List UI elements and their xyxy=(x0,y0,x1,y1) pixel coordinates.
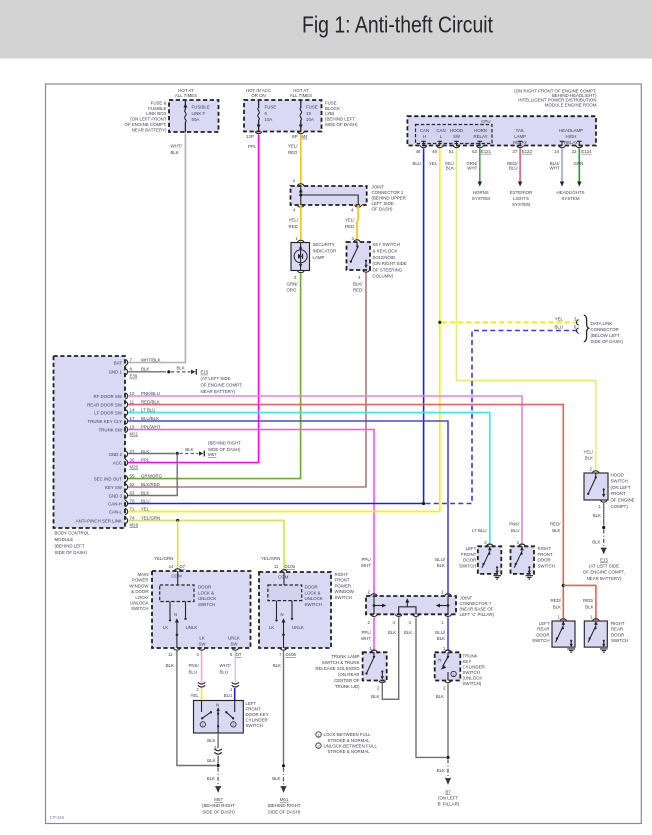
svg-text:WINDOW: WINDOW xyxy=(335,589,355,594)
label: BODY CONTROL MODULE xyxy=(55,531,91,556)
RR pin 1 xyxy=(590,614,599,621)
svg-text:RELEASE SOLENOID: RELEASE SOLENOID xyxy=(315,666,359,671)
svg-text:SEC IND OUT: SEC IND OUT xyxy=(94,476,123,481)
svg-text:YEL/: YEL/ xyxy=(583,449,593,454)
wire PNK/BLU pin 10 to right front door switch xyxy=(128,396,522,545)
svg-text:HEADLIGHTS: HEADLIGHTS xyxy=(556,190,584,195)
svg-text:CENTER OF: CENTER OF xyxy=(334,678,360,683)
svg-text:WHT: WHT xyxy=(361,563,371,568)
svg-text:FRONT: FRONT xyxy=(246,707,261,712)
svg-text:FRONT: FRONT xyxy=(335,578,350,583)
wire LT BLU pin 14 to left front door switch xyxy=(128,413,490,546)
svg-text:YEL: YEL xyxy=(190,693,199,698)
svg-text:63: 63 xyxy=(130,490,135,495)
right switch top pin 11 D105 xyxy=(274,564,296,580)
svg-text:HEADLAMP: HEADLAMP xyxy=(559,128,583,133)
svg-text:TRUNK LID): TRUNK LID) xyxy=(335,684,360,689)
svg-text:BLK: BLK xyxy=(585,456,593,461)
svg-text:FUSE &: FUSE & xyxy=(151,100,167,105)
hood switch pin 1 xyxy=(599,500,607,509)
svg-text:FUSIBLE: FUSIBLE xyxy=(192,105,210,110)
svg-text:GND 2: GND 2 xyxy=(109,452,123,457)
svg-text:FRONT: FRONT xyxy=(461,552,476,557)
wire BLU pin 70 (CAN-H) xyxy=(128,502,425,505)
right front power window switch (dashed box) xyxy=(259,572,331,648)
svg-text:M57: M57 xyxy=(214,797,223,802)
label: fuse box location (left) xyxy=(125,100,167,132)
svg-text:(BEHIND RIGHT: (BEHIND RIGHT xyxy=(202,803,235,808)
svg-text:SWITCH): SWITCH) xyxy=(463,681,482,686)
svg-text:YEL/GRN: YEL/GRN xyxy=(154,556,173,561)
svg-text:RELAY: RELAY xyxy=(564,140,578,145)
svg-text:H: H xyxy=(423,134,426,139)
fuse 6 symbol xyxy=(255,100,261,134)
fuse 19 symbol xyxy=(298,100,304,134)
svg-text:BLU/: BLU/ xyxy=(435,557,446,562)
label: JOINT CONNECTOR 7 xyxy=(460,595,495,617)
label BLU xyxy=(412,161,421,166)
svg-text:E15: E15 xyxy=(201,370,209,375)
svg-text:UNLK: UNLK xyxy=(186,625,198,630)
svg-text:UNLOCK: UNLOCK xyxy=(198,596,216,601)
svg-text:BLU: BLU xyxy=(412,161,421,166)
label M57 ground xyxy=(202,797,235,814)
svg-text:SWITCH: SWITCH xyxy=(335,595,352,600)
label CAN L xyxy=(436,128,445,139)
svg-text:BLK: BLK xyxy=(141,490,149,495)
RR ground xyxy=(600,649,608,652)
svg-text:DOOR: DOOR xyxy=(198,585,211,590)
svg-text:LEFT: LEFT xyxy=(539,621,550,626)
svg-text:14: 14 xyxy=(130,407,135,412)
wire YEL into key cylinder switch xyxy=(201,688,203,701)
label BLK (main pin 11) xyxy=(166,663,174,668)
svg-text:BLK: BLK xyxy=(437,563,445,568)
LF door switch blade xyxy=(482,546,499,574)
svg-text:OF ENGINE COMPT,: OF ENGINE COMPT, xyxy=(201,383,243,388)
svg-text:Fig 1: Anti-theft Circuit: Fig 1: Anti-theft Circuit xyxy=(302,12,493,38)
svg-text:CAN-L: CAN-L xyxy=(109,509,123,514)
svg-text:BLK: BLK xyxy=(141,367,149,372)
label: JOINT CONNECTOR 1 text xyxy=(372,185,406,212)
label GRN/WHT xyxy=(466,161,478,171)
pin arcs on IPDM bottom edge xyxy=(420,146,582,148)
svg-text:FUSE: FUSE xyxy=(306,105,318,110)
label HEADLAMP HIGH RELAY xyxy=(559,128,583,145)
svg-text:70: 70 xyxy=(130,498,135,503)
label: HOT AT ALL TIMES (right) xyxy=(290,88,312,98)
svg-text:LEFT: LEFT xyxy=(246,701,257,706)
svg-text:N: N xyxy=(438,657,441,662)
svg-text:FUSE: FUSE xyxy=(265,105,277,110)
inline connector on key cylinder BLK xyxy=(214,749,221,754)
svg-text:11: 11 xyxy=(274,564,279,569)
wire YEL dashed to data link connector xyxy=(442,321,578,323)
svg-text:SECURITY: SECURITY xyxy=(313,242,335,247)
svg-text:RIGHT: RIGHT xyxy=(538,546,552,551)
svg-text:LIGHTS: LIGHTS xyxy=(513,196,529,201)
wire YEL/RED from JC1 to security indicator lamp xyxy=(300,205,302,240)
svg-text:(ON REAR: (ON REAR xyxy=(338,672,359,677)
svg-text:PNK/: PNK/ xyxy=(509,522,520,527)
trunk key pin 2 and BLK wire to B7 xyxy=(436,681,452,786)
wire BLK JC7 pin4a down to trunk lamp loop xyxy=(384,617,399,699)
svg-text:BLK: BLK xyxy=(436,694,444,699)
wire YEL/RED from fuse 19 to joint connector 1 xyxy=(300,135,302,185)
svg-text:GND 3: GND 3 xyxy=(109,493,123,498)
svg-text:(UNLOCK: (UNLOCK xyxy=(463,675,483,680)
svg-text:E124: E124 xyxy=(581,149,592,154)
svg-text:RED/: RED/ xyxy=(550,522,561,527)
svg-text:1: 1 xyxy=(317,733,319,737)
title bar xyxy=(0,0,652,59)
svg-text:(ON RIGHT SIDE: (ON RIGHT SIDE xyxy=(373,261,407,266)
svg-text:UNLOCK: UNLOCK xyxy=(305,596,323,601)
svg-text:BLK: BLK xyxy=(171,150,179,155)
data link connector pin arcs xyxy=(577,320,579,333)
svg-text:LF DOOR SW: LF DOOR SW xyxy=(94,410,123,415)
svg-text:OF STEERING: OF STEERING xyxy=(373,267,403,272)
diagram id 17F465 xyxy=(50,815,65,820)
wire PPL/WHT JC7 to trunk lamp switch xyxy=(373,617,375,651)
joint connector 7 (dashed box) xyxy=(366,596,456,614)
svg-text:LK: LK xyxy=(199,636,204,641)
label YEL/RED (right) xyxy=(345,218,355,229)
svg-text:BLK: BLK xyxy=(388,630,396,635)
wire BLK from key cylinder pin 3 xyxy=(207,733,218,751)
svg-text:SIDE OF DASH): SIDE OF DASH) xyxy=(202,809,235,814)
svg-text:D106: D106 xyxy=(286,652,297,657)
label: FUSE 6 10A xyxy=(265,105,277,123)
svg-text:BLK: BLK xyxy=(593,513,601,518)
label: LEFT FRONT DOOR KEY CYLINDER SWITCH xyxy=(246,701,269,728)
svg-text:ANTI-PINCH SER LINK: ANTI-PINCH SER LINK xyxy=(76,518,122,523)
svg-text:17: 17 xyxy=(130,416,135,421)
svg-text:LEFT: LEFT xyxy=(466,546,477,551)
data link connector brace xyxy=(584,315,589,342)
pin 12P label xyxy=(246,134,254,139)
label E15 below hood switch xyxy=(583,557,625,581)
svg-text:E15: E15 xyxy=(600,557,608,562)
wire GRN/WHT horn relay output with arrow xyxy=(478,149,482,187)
svg-text:BLU: BLU xyxy=(224,693,233,698)
trunk lamp switch blade + solenoid arrow xyxy=(365,652,384,679)
wire WHT/BLU from UNLK SW pin 5 xyxy=(234,651,236,683)
svg-text:BLK: BLK xyxy=(592,539,600,544)
main switch bottom pins 11 4 5 D7 xyxy=(168,648,242,657)
body control module (dashed box) xyxy=(54,356,126,528)
wire BLK pin 63 joined to GND2 junction xyxy=(128,454,177,496)
svg-text:HOOD: HOOD xyxy=(450,128,463,133)
svg-text:RF DOOR SW: RF DOOR SW xyxy=(93,394,122,399)
labels PPL/WHT + BLU/BLK above JC7 xyxy=(361,557,446,568)
svg-text:2: 2 xyxy=(232,723,234,727)
wire BLU/BLK JC7 to trunk key cylinder xyxy=(447,617,449,651)
svg-text:PPL: PPL xyxy=(248,144,257,149)
key switch & keylock solenoid (dashed box) xyxy=(347,242,371,270)
svg-text:BLU: BLU xyxy=(509,166,518,171)
svg-text:FUSIBLE: FUSIBLE xyxy=(148,106,166,111)
svg-text:REAR DOOR SW: REAR DOOR SW xyxy=(87,402,123,407)
CPU pin stubs (T-bars) xyxy=(421,141,581,145)
RF door switch pin 2 xyxy=(517,540,526,546)
svg-text:STROKE & NORMAL: STROKE & NORMAL xyxy=(328,749,371,754)
svg-text:E121: E121 xyxy=(481,149,492,154)
legend: lock/unlock stroke notes xyxy=(316,732,378,754)
pin numbers row: 48 49 51 53 E121 37 E122 24 22 E124 xyxy=(416,149,593,154)
svg-text:BLU: BLU xyxy=(220,670,229,675)
svg-text:PPL/: PPL/ xyxy=(361,630,371,635)
wire BLU into key cylinder switch xyxy=(234,688,236,701)
main switch top pin 14 D7 xyxy=(169,564,186,579)
labels 2 YEL / 1 BLU xyxy=(190,687,232,698)
svg-text:M19: M19 xyxy=(130,522,139,527)
svg-text:RIGHT: RIGHT xyxy=(611,621,625,626)
svg-text:DATA LINK: DATA LINK xyxy=(591,321,613,326)
svg-text:BLK: BLK xyxy=(166,663,174,668)
svg-text:11: 11 xyxy=(130,399,135,404)
svg-text:49: 49 xyxy=(432,149,437,154)
label: LEFT FRONT DOOR SWITCH xyxy=(459,546,477,568)
wire YEL/RED from JC1 to key switch xyxy=(357,205,358,240)
svg-text:TRUNK SW: TRUNK SW xyxy=(99,427,123,432)
JC7 top pin labels and arcs xyxy=(368,590,452,596)
svg-text:HORNS: HORNS xyxy=(473,190,489,195)
svg-text:PNK/BLU: PNK/BLU xyxy=(141,391,160,396)
svg-text:BAT: BAT xyxy=(114,360,123,365)
svg-text:YEL/: YEL/ xyxy=(289,218,299,223)
BCM pin bumps xyxy=(125,360,128,524)
svg-text:PNK/: PNK/ xyxy=(189,663,200,668)
svg-text:RELAY: RELAY xyxy=(473,134,487,139)
svg-text:PPL/: PPL/ xyxy=(361,557,371,562)
svg-text:10A: 10A xyxy=(306,117,314,122)
label: RIGHT FRONT POWER WINDOW SWITCH xyxy=(335,572,355,600)
labels RED/BLK at rear door switches xyxy=(551,598,595,609)
label YEL/RED (left) xyxy=(289,218,299,229)
svg-text:GND 1: GND 1 xyxy=(109,370,123,375)
pin 1 label and arc xyxy=(295,236,304,243)
svg-text:LEFT 'C' PILLAR): LEFT 'C' PILLAR) xyxy=(460,612,495,617)
label YEL/GRN (right) xyxy=(261,556,280,561)
label: SECURITY INDICATOR LAMP xyxy=(313,242,337,260)
svg-text:& KEYLOCK: & KEYLOCK xyxy=(373,249,398,254)
label: FUSE 19 10A xyxy=(306,105,318,123)
svg-text:YEL/GRN: YEL/GRN xyxy=(261,556,280,561)
svg-text:M4: M4 xyxy=(302,134,309,139)
svg-text:WHT: WHT xyxy=(361,636,371,641)
label BLK (B7 drop) xyxy=(437,768,445,773)
svg-text:OR ON: OR ON xyxy=(251,93,265,98)
labels PPL/WHT BLK BLK BLU/BLK below JC7 xyxy=(361,630,446,641)
wire BLK JC7 pin4b down to B7 junction xyxy=(416,617,446,757)
JC7 internal bus xyxy=(373,596,450,614)
left rear door switch box xyxy=(552,621,575,647)
svg-text:YEL/: YEL/ xyxy=(345,218,355,223)
RED/BLK junction and branch to right rear door switch xyxy=(562,584,596,620)
svg-text:BLK: BLK xyxy=(272,776,280,781)
svg-text:CPU: CPU xyxy=(481,119,490,124)
fuse block J/B (dashed) xyxy=(244,100,322,132)
svg-text:BLK: BLK xyxy=(437,768,445,773)
LR blade xyxy=(556,621,573,647)
pin 3 label and arc xyxy=(352,236,361,242)
svg-text:BLU/BLK: BLU/BLK xyxy=(141,416,159,421)
svg-text:PPL: PPL xyxy=(141,457,150,462)
svg-text:74: 74 xyxy=(130,515,135,520)
trunk lamp pin 2 and BLK wire xyxy=(371,681,399,700)
svg-text:COM: COM xyxy=(171,574,182,579)
svg-text:CONNECTOR 7: CONNECTOR 7 xyxy=(460,601,492,606)
svg-text:SIDE OF DASH): SIDE OF DASH) xyxy=(55,550,88,555)
svg-text:UNLK: UNLK xyxy=(228,636,240,641)
labels BLK at hood ground xyxy=(592,513,601,544)
wire BLK right switch pin 7 to M61 xyxy=(273,651,287,793)
svg-text:UNLOCK-BETWEEN FULL: UNLOCK-BETWEEN FULL xyxy=(324,743,378,748)
svg-text:HOOD: HOOD xyxy=(611,472,624,477)
wire BLK/RED from key switch to BCM pin 62 xyxy=(128,273,366,487)
label PPL xyxy=(248,144,257,149)
svg-text:2: 2 xyxy=(317,745,319,749)
label: LEFT REAR DOOR SWITCH xyxy=(532,621,550,643)
svg-text:71: 71 xyxy=(130,506,135,511)
svg-text:WHT: WHT xyxy=(467,166,477,171)
svg-text:LOCK &: LOCK & xyxy=(198,590,214,595)
svg-text:37: 37 xyxy=(512,149,517,154)
right rear door switch box xyxy=(584,621,607,647)
svg-text:10: 10 xyxy=(130,391,135,396)
JC7 bottom pin labels and arcs xyxy=(368,614,452,625)
svg-text:22: 22 xyxy=(572,149,577,154)
hood switch box xyxy=(584,473,608,500)
svg-text:ALL TIMES: ALL TIMES xyxy=(290,93,312,98)
svg-text:DOOR KEY: DOOR KEY xyxy=(246,712,269,717)
svg-text:WINDOW: WINDOW xyxy=(129,583,149,588)
svg-text:NEAR BATTERY): NEAR BATTERY) xyxy=(587,576,622,581)
svg-text:SWITCH: SWITCH xyxy=(611,638,628,643)
svg-text:19: 19 xyxy=(130,424,135,429)
inline connector on WHT/BLU wire xyxy=(232,682,239,687)
svg-text:11: 11 xyxy=(168,652,173,657)
joint connector 1 (dashed box) xyxy=(291,186,367,205)
svg-text:TRUNK KEY CLY: TRUNK KEY CLY xyxy=(88,419,123,424)
svg-text:KEY SWITCH: KEY SWITCH xyxy=(373,242,400,247)
svg-text:BLK: BLK xyxy=(404,630,412,635)
right front door switch (dashed box) xyxy=(511,546,535,574)
svg-text:BLK: BLK xyxy=(273,663,281,668)
svg-text:YEL/GRN: YEL/GRN xyxy=(141,515,160,520)
label E15 (at left side of engine compt) xyxy=(201,370,243,394)
svg-text:19: 19 xyxy=(306,111,311,116)
label HOOD SW xyxy=(450,128,463,139)
security indicator lamp box xyxy=(291,243,310,271)
svg-text:M57: M57 xyxy=(208,452,217,457)
svg-text:KEY SW: KEY SW xyxy=(105,485,123,490)
svg-text:CAN: CAN xyxy=(436,128,445,133)
svg-text:RED: RED xyxy=(345,224,354,229)
svg-text:55: 55 xyxy=(130,473,135,478)
svg-text:M21: M21 xyxy=(130,431,139,436)
svg-text:BLK: BLK xyxy=(207,758,215,763)
wire YEL/BLK from CPU pin 51 to hood switch xyxy=(457,149,596,471)
svg-text:BLK: BLK xyxy=(371,694,379,699)
label RED/BLK (long vertical) xyxy=(550,522,561,533)
svg-text:LEFT SIDE: LEFT SIDE xyxy=(372,201,394,206)
svg-text:RED/: RED/ xyxy=(583,598,594,603)
wire GRN/ORG from lamp to BCM pin 55 xyxy=(128,274,301,479)
security lamp symbol (circle + LED) xyxy=(294,243,307,271)
svg-text:(AT LEFT SIDE: (AT LEFT SIDE xyxy=(201,376,231,381)
svg-text:SYSTEM: SYSTEM xyxy=(512,202,530,207)
svg-text:WHT/: WHT/ xyxy=(220,663,232,668)
label HEADLIGHTS SYSTEM xyxy=(556,190,584,201)
svg-text:(AT LEFT SIDE: (AT LEFT SIDE xyxy=(589,564,619,569)
svg-text:DOOR: DOOR xyxy=(463,558,476,563)
label BLK (E15 stub) xyxy=(177,365,185,370)
label YEL xyxy=(429,161,438,166)
svg-text:RED: RED xyxy=(288,150,297,155)
RF door switch blade xyxy=(514,546,531,574)
label BLK (M61 drop) xyxy=(272,776,280,781)
svg-text:SWITCH: SWITCH xyxy=(532,638,549,643)
svg-text:RED: RED xyxy=(289,224,298,229)
labels LK SW / UNLK SW xyxy=(198,636,239,647)
svg-text:GRN: GRN xyxy=(574,161,584,166)
svg-text:YEL: YEL xyxy=(555,316,564,321)
BCM connector refs E39 M21 M20 M19 xyxy=(130,374,139,528)
pin 4 label and arc xyxy=(358,270,369,280)
svg-text:RED: RED xyxy=(353,288,362,293)
svg-text:DOOR: DOOR xyxy=(305,585,318,590)
label: FUSE BLOCK (J/B) location (right) xyxy=(325,100,358,127)
svg-text:POWER: POWER xyxy=(335,583,352,588)
svg-text:WHT/: WHT/ xyxy=(171,144,183,149)
wire BLK pin 8 to E15 (dashed) xyxy=(128,369,196,375)
label BLK (M57 stub) xyxy=(185,447,193,452)
svg-text:OF DASH): OF DASH) xyxy=(372,207,394,212)
trunk lamp switch & release solenoid (dashed box) xyxy=(363,652,387,680)
svg-text:24: 24 xyxy=(554,149,559,154)
label BLU/WHT xyxy=(550,161,561,171)
svg-text:FRONT: FRONT xyxy=(538,552,553,557)
svg-text:SWITCH & TRUNK: SWITCH & TRUNK xyxy=(322,660,360,665)
svg-text:SYSTEM: SYSTEM xyxy=(561,196,579,201)
svg-text:(J/B): (J/B) xyxy=(325,111,335,116)
svg-text:REAR: REAR xyxy=(537,627,549,632)
svg-text:1: 1 xyxy=(202,723,204,727)
JC1 pin arcs xyxy=(298,184,362,207)
svg-text:FRONT: FRONT xyxy=(611,491,626,496)
svg-text:TRUNK: TRUNK xyxy=(463,653,478,658)
svg-text:E39: E39 xyxy=(130,374,138,379)
svg-text:48: 48 xyxy=(416,149,421,154)
wire YEL/GRN pin 74 to power window switches xyxy=(128,519,284,569)
label PNK/BLU (door switch) xyxy=(509,522,520,533)
label YEL/GRN (left) xyxy=(154,556,173,561)
label PNK/BLU xyxy=(189,663,200,674)
svg-text:LAMP: LAMP xyxy=(313,255,325,260)
svg-text:TRUNK LAMP: TRUNK LAMP xyxy=(331,654,359,659)
LR ground xyxy=(567,649,575,652)
label RED/BLU xyxy=(507,161,518,171)
svg-text:& DOOR: & DOOR xyxy=(131,589,148,594)
svg-text:KEY: KEY xyxy=(463,659,472,664)
svg-text:D7: D7 xyxy=(236,652,242,657)
svg-text:SOLENOID: SOLENOID xyxy=(373,255,396,260)
svg-text:51: 51 xyxy=(449,149,454,154)
label: MAIN POWER WINDOW & DOOR LOCK/UNLOCK SWITCH xyxy=(129,572,149,611)
svg-text:RED/: RED/ xyxy=(551,598,562,603)
